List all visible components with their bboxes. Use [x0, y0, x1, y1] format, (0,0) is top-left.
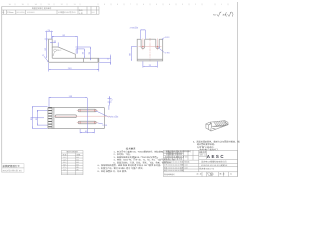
svg-text:A1: A1 — [2, 11, 4, 14]
side view part outline — [49, 39, 99, 62]
base bottom front edge — [211, 125, 228, 131]
left revision rows — [163, 151, 183, 153]
flange front-left face — [206, 124, 209, 129]
svg-text:Ø8.2: Ø8.2 — [57, 49, 63, 52]
svg-text:C2: C2 — [63, 168, 65, 171]
12 leader — [44, 56, 48, 62]
revision table top-left — [2, 7, 99, 15]
side view dimensions blue — [44, 31, 111, 72]
right end thickness dim — [99, 57, 111, 59]
svg-text:6、锐角倒钝处理后，表面 阳极 氧化处理 不低于 GB T要: 6、锐角倒钝处理后，表面 阳极 氧化处理 不低于 GB T要求 执行查。 — [98, 164, 163, 167]
svg-text:修改: 修改 — [79, 9, 83, 12]
base top face — [210, 121, 228, 127]
side view dim arrows — [45, 31, 111, 70]
front view centerlines red — [139, 38, 162, 61]
svg-text:2、去毛刺、飞边。: 2、去毛刺、飞边。 — [114, 153, 132, 156]
plan view dimensions — [32, 96, 112, 133]
svg-text:XXXXXX: XXXXXX — [27, 11, 35, 14]
flange inner corner edges — [209, 124, 212, 127]
dim 20 small — [50, 42, 56, 44]
svg-text:总装配检验分工: 总装配检验分工 — [2, 164, 20, 168]
svg-text:其余: 其余 — [223, 13, 227, 16]
svg-text:螺纹孔明细表: 螺纹孔明细表 — [67, 151, 78, 154]
svg-text:1、未注尺寸公差按 GB、T1804要求执行，锐边倒钝。: 1、未注尺寸公差按 GB、T1804要求执行，锐边倒钝。 — [114, 150, 166, 153]
svg-text:Ø5: Ø5 — [76, 168, 79, 171]
flange to base front band — [209, 129, 211, 131]
svg-text:2-M5深8: 2-M5深8 — [130, 27, 139, 30]
svg-text:XX制图XXXX号文XX: XX制图XXXX号文XX — [58, 11, 76, 14]
svg-text:7、批量生产前，需打 样 确认 后方 可量产 供货。: 7、批量生产前，需打 样 确认 后方 可量产 供货。 — [98, 167, 145, 170]
svg-text:允用"零"公差进行。: 允用"零"公差进行。 — [197, 146, 216, 149]
svg-text:深圳市XX精密科技有限公司: 深圳市XX精密科技有限公司 — [201, 161, 227, 164]
side view dim labels — [42, 29, 110, 70]
svg-text:AESC: AESC — [207, 154, 225, 159]
leader for slot label — [97, 111, 108, 116]
title block tiny text — [164, 150, 232, 176]
front view outline — [137, 39, 163, 61]
svg-text:人员: 人员 — [79, 12, 83, 15]
border frame — [2, 2, 238, 177]
plan view blue centre extension — [31, 98, 88, 133]
svg-text:XXXXXX-XX-XX-XX 支架XX: XXXXXX-XX-XX-XX 支架XX — [201, 164, 228, 167]
plan view hatch rungs — [48, 108, 52, 127]
small dim top right — [109, 96, 111, 106]
surface finish symbols top right — [217, 12, 233, 17]
svg-text:5、表面处理前颜色、需求方法与图签栏粗糙，用途规: 5、表面处理前颜色、需求方法与图签栏粗糙，用途规 — [193, 140, 240, 143]
front view dimensions — [131, 30, 164, 68]
zone tick marks top — [15, 3, 228, 5]
svg-text:2-R3: 2-R3 — [102, 124, 108, 127]
svg-text:(XX.XXX): (XX.XXX) — [16, 11, 24, 14]
dim 25 top — [47, 31, 52, 33]
bottom dim 240 — [48, 63, 50, 72]
svg-text:技术要求: 技术要求 — [126, 146, 136, 150]
svg-text:格以图纸要求依据。: 格以图纸要求依据。 — [197, 143, 216, 146]
svg-text:3.30mm: 3.30mm — [7, 11, 14, 14]
rib lines on base top — [214, 122, 218, 126]
flange top face — [206, 123, 211, 126]
rib lower hints — [212, 128, 216, 129]
svg-text:2-R5: 2-R5 — [165, 52, 171, 55]
plan view outline — [48, 107, 105, 128]
plan view centerlines — [54, 111, 110, 123]
side view leader circle detail — [53, 49, 56, 55]
projection symbol — [207, 173, 213, 176]
svg-text:制图区域标注 更改单号: 制图区域标注 更改单号 — [32, 7, 52, 10]
svg-text:4-R3: 4-R3 — [165, 36, 171, 39]
left vertical dim — [46, 39, 48, 58]
svg-text:2-Ø4.5深6: 2-Ø4.5深6 — [108, 115, 119, 118]
svg-text:8、其他 按图执 行，符合 要求。: 8、其他 按图执 行，符合 要求。 — [98, 170, 129, 173]
svg-text:3、表面阳极氧化处理按GB／T8013执行(黑色)。: 3、表面阳极氧化处理按GB／T8013执行(黑色)。 — [114, 156, 160, 159]
zone letters top — [9, 3, 224, 6]
dim 90 — [52, 36, 77, 38]
svg-text:20XX年X月X日 XX: 20XX年X月X日 XX — [2, 169, 22, 172]
right vertical dims — [76, 48, 84, 50]
svg-text:铝合金 6061-T6: 铝合金 6061-T6 — [199, 167, 214, 170]
